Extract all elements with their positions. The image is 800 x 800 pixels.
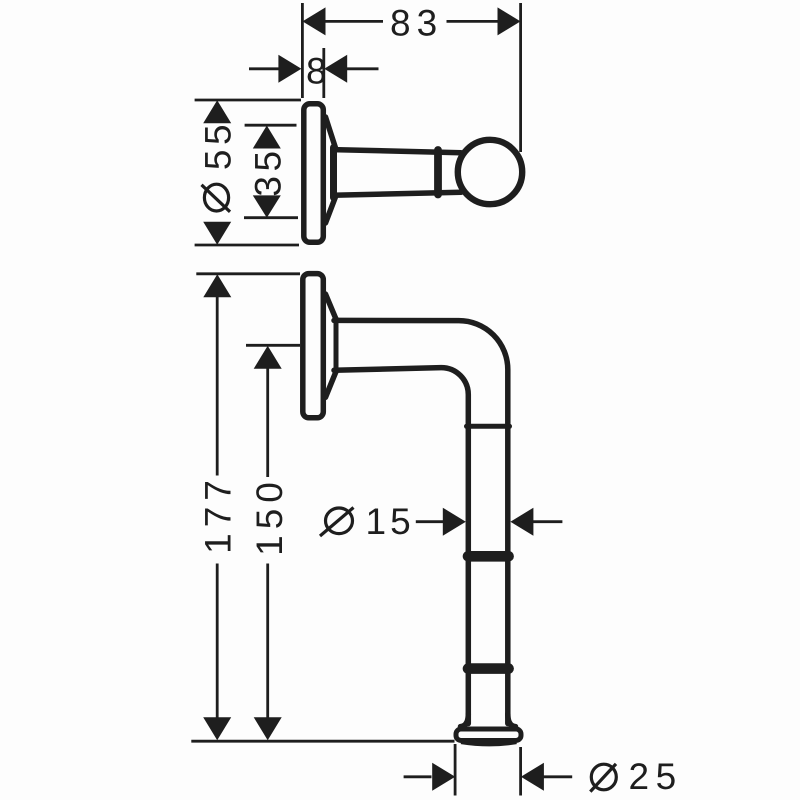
svg-text:83: 83	[390, 3, 443, 44]
ext line plate left (shared 83/8)	[301, 3, 304, 98]
wall plate	[304, 104, 324, 243]
svg-text:15: 15	[366, 501, 415, 542]
label D25: diameter symbol	[590, 764, 616, 792]
cone end bar	[330, 148, 337, 198]
177 dim line upper seg	[216, 296, 219, 476]
base foot fillets	[461, 714, 469, 727]
collar line below elbow	[467, 424, 510, 429]
svg-text:177: 177	[198, 474, 239, 554]
cone top edge	[326, 117, 337, 150]
D55 top arrowhead	[203, 100, 231, 123]
D25 left tail	[404, 775, 432, 778]
D55 bottom arrowhead	[203, 222, 231, 245]
D15 right arrowhead	[510, 508, 533, 536]
svg-text:25: 25	[629, 756, 683, 797]
177 dim line lower seg	[216, 564, 219, 720]
83 dim line left seg	[324, 20, 383, 23]
D25 left arrowhead	[432, 763, 455, 791]
150 dim line upper seg	[266, 368, 269, 478]
D15 left arrowhead	[443, 508, 466, 536]
8 right arrowhead	[324, 55, 347, 83]
D15 left tail	[416, 520, 447, 523]
8 dim right tail	[346, 67, 379, 70]
8 left arrowhead	[278, 55, 301, 83]
wall plate	[303, 274, 324, 418]
ext line pipe axis (150)	[246, 344, 300, 347]
83 right arrowhead	[498, 7, 521, 35]
150 bottom arrowhead	[254, 717, 282, 740]
8 dim left tail	[249, 67, 280, 70]
cone end bar	[334, 319, 339, 373]
D15 right tail	[532, 520, 563, 523]
svg-text:8: 8	[306, 50, 327, 91]
stem bottom edge	[333, 192, 461, 195]
ext line plate bottom (D55)	[195, 244, 299, 247]
D25 right tail	[543, 775, 573, 778]
svg-text:150: 150	[249, 476, 290, 556]
83 dim line right seg	[447, 20, 500, 23]
ball	[458, 140, 522, 204]
base bottom bulge	[461, 742, 517, 744]
ext line plate top (D55)	[195, 99, 301, 102]
ring 2	[463, 663, 514, 674]
pipe bottom/inner edge with elbow	[334, 368, 468, 724]
177 bottom arrowhead	[203, 717, 231, 740]
stem top edge	[333, 150, 461, 153]
cone top edge	[326, 294, 337, 320]
177 top arrowhead	[203, 274, 231, 297]
D25 ext line right	[519, 747, 522, 796]
35 top arrowhead	[253, 126, 281, 149]
base foot	[456, 729, 521, 741]
ext line ball right	[519, 3, 522, 152]
ring 1	[463, 551, 514, 562]
ext line cone top (35)	[245, 124, 297, 127]
150 dim line lower seg	[266, 564, 269, 720]
cone bottom edge	[326, 196, 337, 224]
svg-text:55: 55	[198, 120, 239, 170]
svg-text:35: 35	[247, 146, 288, 196]
D25 ext line left	[454, 744, 457, 796]
35 bottom arrowhead	[253, 195, 281, 217]
150 top arrowhead	[254, 346, 282, 369]
83 left arrowhead	[303, 7, 326, 35]
ext line plate top (177)	[196, 272, 300, 275]
collar near ball	[434, 150, 442, 195]
D25 right arrowhead	[521, 763, 544, 791]
pipe top/outer edge with elbow	[334, 320, 508, 723]
ext line plate right (8 dim)	[322, 48, 325, 98]
ext line cone bottom (35)	[244, 216, 298, 219]
bottom reference line	[191, 740, 454, 743]
label D55: diameter symbol	[202, 184, 231, 212]
label D15: diameter symbol	[320, 508, 354, 537]
cone bottom edge	[326, 370, 337, 397]
